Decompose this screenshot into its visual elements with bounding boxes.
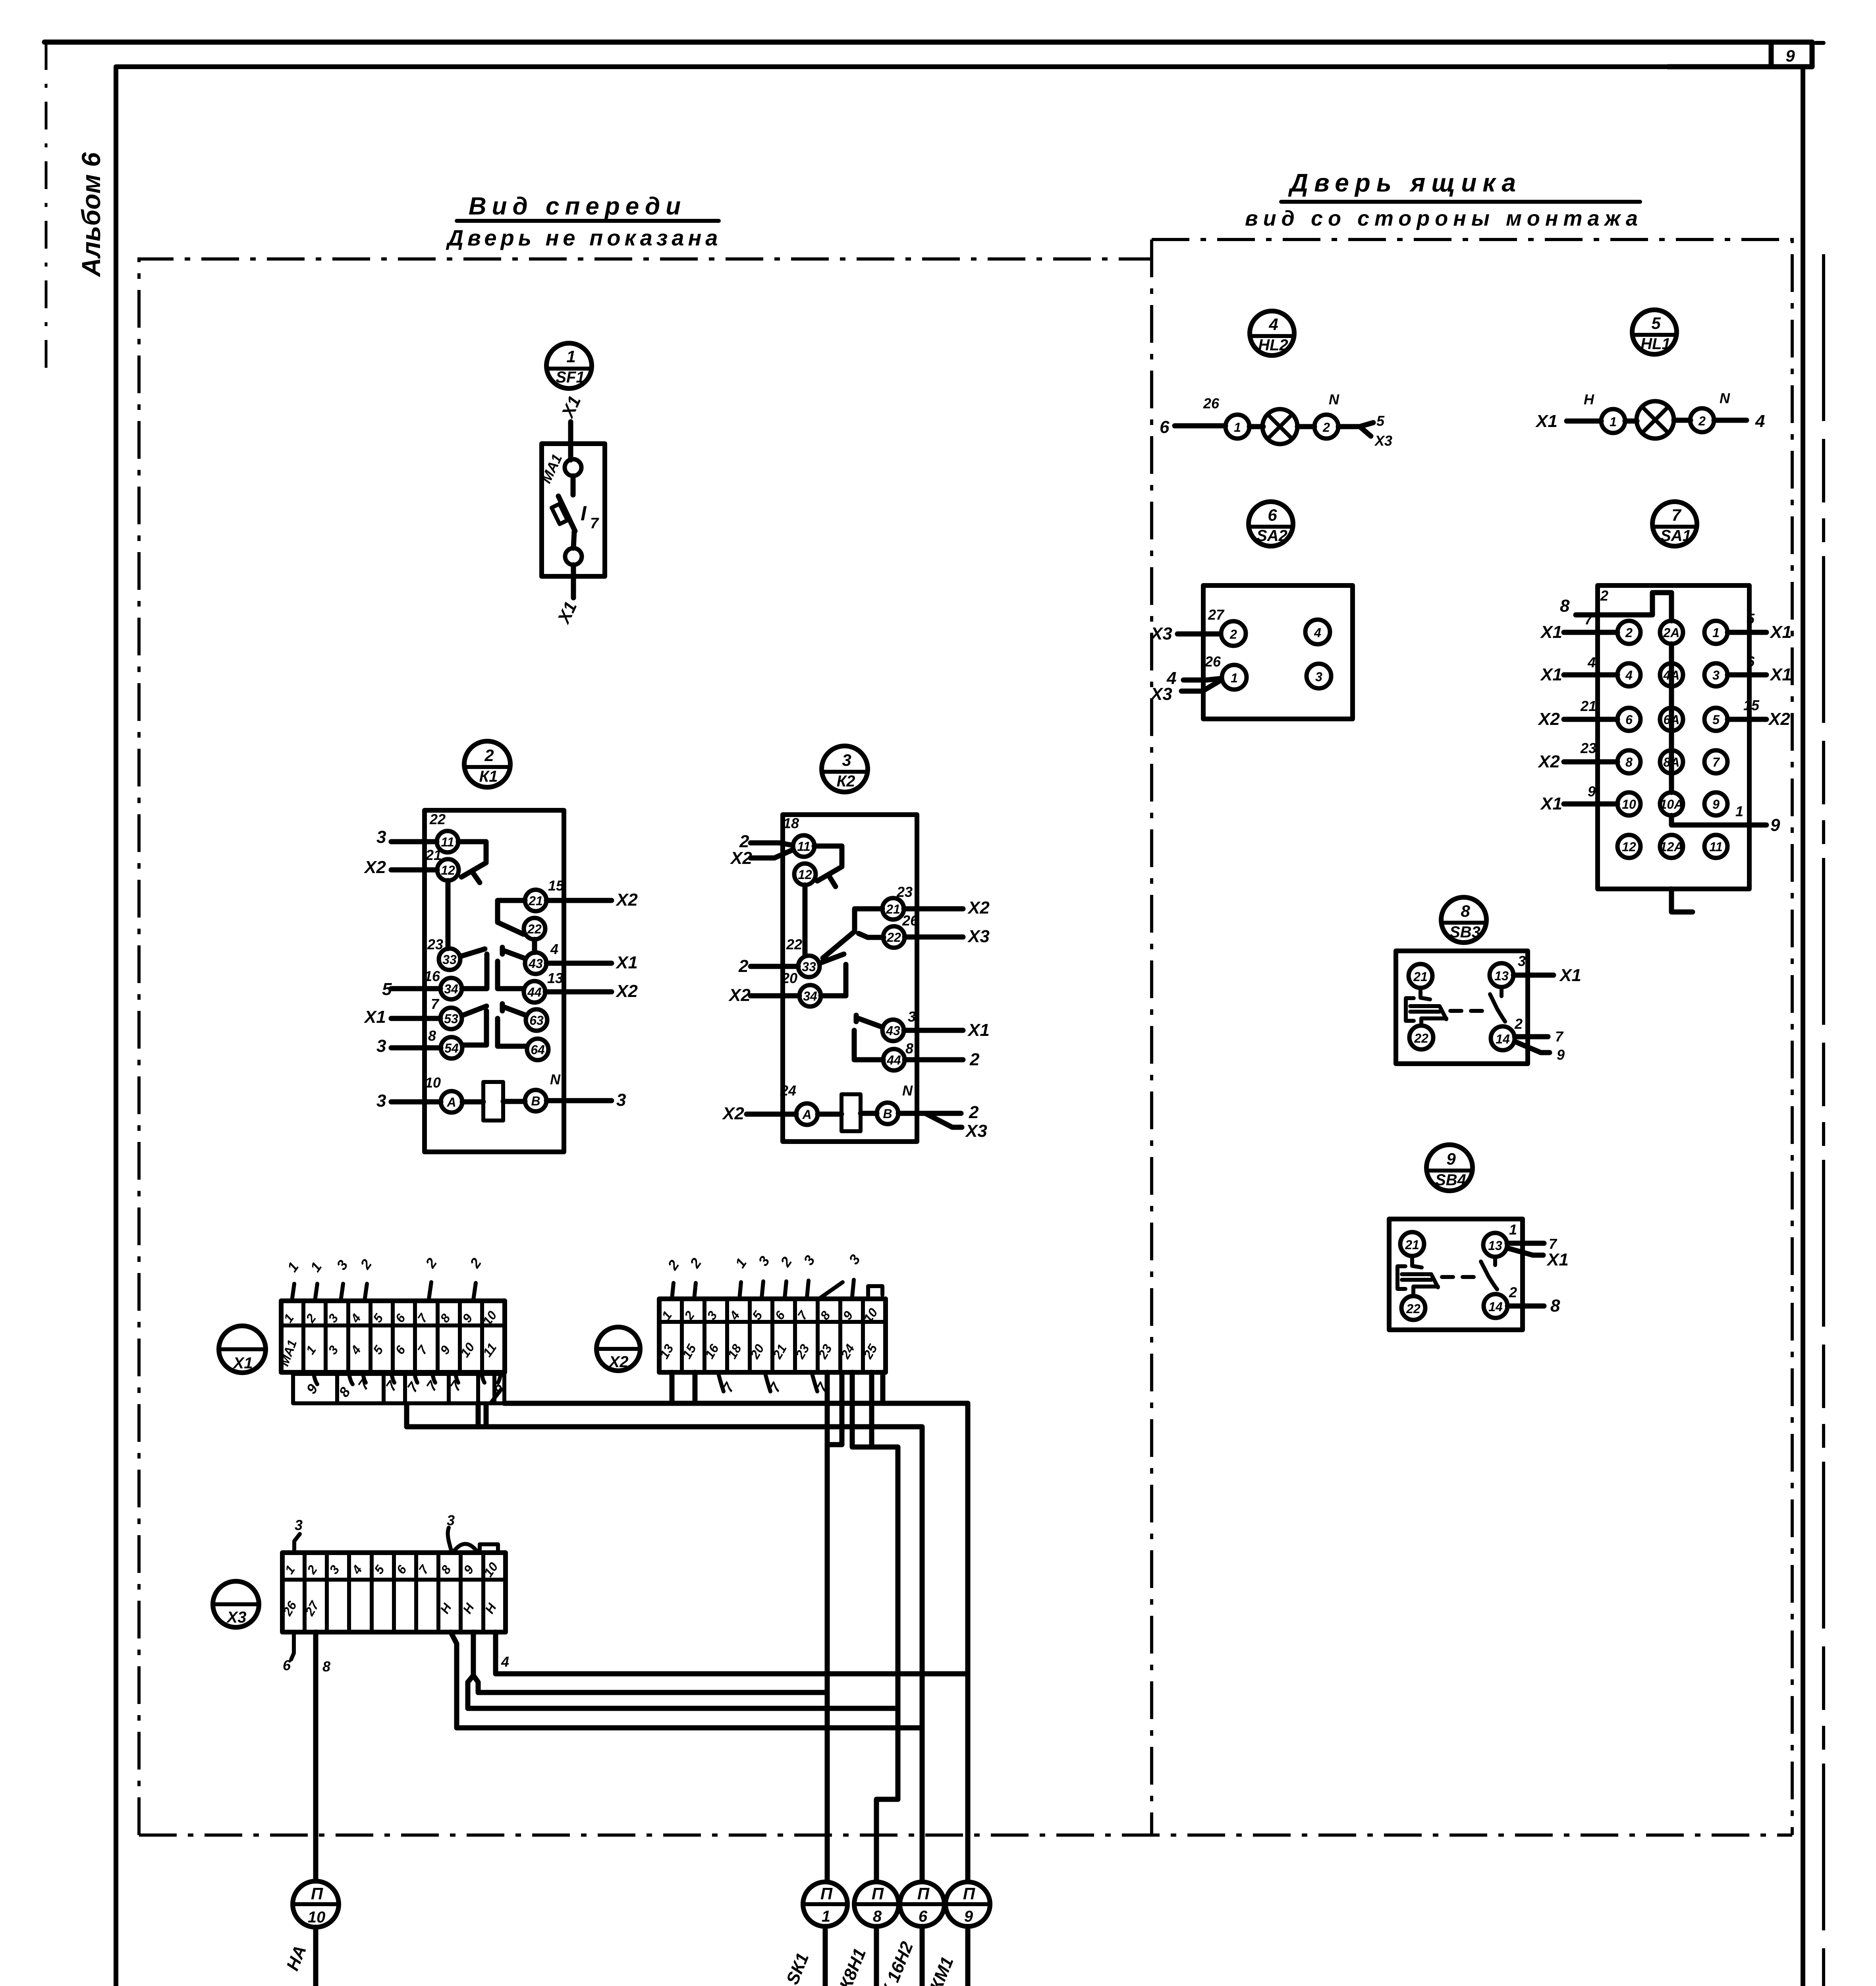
terminal K1:33 (439, 949, 460, 970)
svg-text:X3: X3 (965, 1121, 987, 1141)
wire SA1:10A to 9 (1671, 815, 1766, 825)
svg-text:3: 3 (616, 1090, 626, 1110)
svg-text:В: В (531, 1094, 540, 1108)
terminal SA1:6 (1617, 708, 1641, 731)
svg-text:3: 3 (333, 1257, 351, 1273)
svg-text:1: 1 (566, 347, 575, 366)
svg-text:53: 53 (444, 1012, 458, 1026)
svg-text:22: 22 (886, 930, 901, 945)
svg-text:X1: X1 (558, 393, 585, 421)
svg-text:2: 2 (484, 746, 494, 765)
svg-text:24: 24 (780, 1082, 796, 1099)
svg-text:22: 22 (527, 922, 542, 936)
svg-text:26: 26 (1204, 653, 1221, 670)
switch SA1 reference circle 7/SA1 (1652, 502, 1697, 546)
breaker blade (558, 496, 575, 531)
svg-text:43: 43 (528, 956, 543, 971)
svg-text:3: 3 (845, 1252, 863, 1267)
svg-text:9: 9 (1785, 46, 1795, 65)
terminal SA1:10 (1617, 792, 1641, 815)
svg-text:43: 43 (886, 1024, 900, 1038)
svg-text:В: В (883, 1107, 892, 1121)
svg-text:N: N (902, 1082, 913, 1099)
svg-text:3: 3 (1712, 668, 1720, 682)
wire K1:44 to X2 (545, 989, 612, 995)
terminal K2:33 (798, 956, 820, 977)
terminal K1:11 (437, 831, 458, 852)
wire X2:9 down to P8 (852, 1372, 898, 1881)
svg-text:8: 8 (322, 1658, 330, 1675)
svg-text:7: 7 (415, 1310, 431, 1325)
terminal K1:63 (526, 1009, 547, 1031)
wire X3:9 forks (h2,h3) (468, 1632, 898, 1708)
svg-text:2: 2 (422, 1255, 440, 1271)
wires SB4:13 to 7 and X1 (1507, 1243, 1544, 1255)
wire X1 to SA1:10 (1564, 802, 1617, 807)
svg-text:3: 3 (908, 1008, 916, 1025)
svg-text:X2: X2 (728, 985, 751, 1005)
svg-text:1: 1 (1509, 1221, 1517, 1238)
terminal SA1:4 (1617, 663, 1641, 686)
wire X2 to K2:34 (751, 993, 799, 999)
svg-text:10: 10 (1622, 797, 1636, 811)
wire X1 to SA1:4 (1564, 672, 1617, 678)
svg-text:2: 2 (686, 1255, 704, 1271)
svg-text:1: 1 (1231, 671, 1238, 685)
wire X3 to SA2:2 (1177, 632, 1221, 637)
svg-text:1: 1 (732, 1255, 750, 1271)
wire 3 to K1:11 (391, 839, 437, 844)
breaker element box (552, 504, 567, 524)
svg-text:П: П (917, 1884, 930, 1903)
svg-text:3: 3 (842, 751, 851, 769)
terminal K2:12 (794, 864, 816, 885)
svg-text:10: 10 (425, 1074, 441, 1091)
svg-text:SВ3: SВ3 (1449, 923, 1480, 941)
svg-text:X2: X2 (1537, 752, 1560, 771)
actuator symbol (1397, 1256, 1438, 1296)
svg-text:Вид спереди: Вид спереди (469, 193, 686, 220)
dash-dot divider between sections (1150, 240, 1153, 1835)
svg-text:22: 22 (429, 811, 446, 827)
contact K1 43 (498, 947, 525, 989)
wire bus B (row 3594) (407, 1405, 922, 1427)
svg-text:5: 5 (370, 1311, 386, 1325)
svg-text:1: 1 (1735, 803, 1743, 819)
terminal K1:A (441, 1091, 462, 1113)
svg-text:2: 2 (969, 1103, 979, 1122)
svg-text:X1: X1 (1540, 794, 1562, 813)
connector X3 reference circle (213, 1581, 259, 1627)
svg-text:X1: X1 (1769, 622, 1792, 642)
svg-text:I: I (581, 502, 587, 525)
moving contact (1490, 987, 1505, 1022)
svg-text:2: 2 (1625, 626, 1633, 640)
svg-text:3: 3 (376, 827, 386, 847)
svg-text:26: 26 (902, 912, 919, 929)
svg-text:7: 7 (431, 996, 440, 1012)
svg-text:1: 1 (303, 1343, 319, 1357)
corner tick top right (1816, 41, 1824, 45)
wire X2 to K1:12 (391, 867, 437, 873)
svg-text:6: 6 (392, 1343, 408, 1357)
wire K1:21 to X2 (546, 898, 612, 903)
svg-text:7: 7 (1585, 611, 1593, 628)
svg-text:2: 2 (1698, 414, 1706, 428)
svg-text:4: 4 (501, 1654, 509, 1670)
svg-text:6: 6 (1625, 713, 1633, 727)
svg-text:7: 7 (1671, 506, 1681, 524)
terminal SA1:4A (1660, 663, 1683, 686)
svg-text:КМ1: КМ1 (926, 1954, 957, 1986)
svg-text:9: 9 (1770, 815, 1780, 835)
terminal K1:34 (440, 978, 462, 999)
svg-text:8: 8 (428, 1028, 436, 1044)
terminal strip X2 (657, 1299, 886, 1372)
svg-text:X2: X2 (1768, 709, 1790, 729)
svg-text:9: 9 (1557, 1047, 1565, 1063)
svg-text:9: 9 (1588, 783, 1596, 800)
svg-text:П: П (872, 1884, 884, 1903)
pilot circle P9 (КМ1) (926, 1882, 990, 1986)
terminal K2:44 (883, 1049, 905, 1070)
pilot circle P10 (НА) (283, 1881, 339, 1986)
dashed actuator link (1450, 1009, 1491, 1013)
wire X1 to K1:53 (391, 1016, 440, 1021)
svg-text:1: 1 (307, 1259, 325, 1275)
wire SB4:14 to 8 (1507, 1304, 1544, 1309)
svg-text:23: 23 (1580, 740, 1596, 756)
switch SA2 reference circle 6/SA2 (1249, 502, 1293, 546)
svg-text:X1: X1 (1540, 665, 1562, 684)
svg-text:6: 6 (392, 1311, 408, 1325)
outer top border line (44, 40, 1812, 45)
button SB3 reference circle 8/SB3 (1441, 897, 1486, 943)
svg-text:N: N (1329, 391, 1339, 408)
svg-text:HL2: HL2 (1258, 336, 1288, 354)
wire 3 to K1:A and coil (391, 1101, 612, 1102)
svg-text:20: 20 (781, 970, 797, 986)
svg-text:16: 16 (424, 968, 440, 984)
svg-text:63: 63 (529, 1013, 544, 1028)
svg-text:3: 3 (376, 1036, 386, 1056)
wire X3:8 to bus (h4) (451, 1632, 922, 1728)
svg-text:9: 9 (437, 1343, 453, 1357)
wire 8 into SA1:2A (1576, 593, 1671, 621)
sheet number box (1668, 42, 1812, 67)
svg-text:2: 2 (1600, 587, 1608, 604)
wire K2:43 to X1 (904, 1028, 963, 1033)
svg-text:N: N (1720, 390, 1730, 406)
terminal SA1:8A (1660, 750, 1683, 773)
terminal SA1:7 (1704, 750, 1727, 773)
svg-text:SA2: SA2 (1256, 527, 1287, 545)
svg-text:7: 7 (1549, 1236, 1558, 1252)
LEFT-SECTION (363, 343, 990, 1152)
STRIPS-AND-WIRES (213, 1252, 990, 1986)
lamp symbol (1262, 409, 1297, 444)
wire X2:8 down to P1 (827, 1372, 842, 1881)
svg-text:8: 8 (438, 1563, 454, 1576)
svg-text:X2: X2 (615, 981, 638, 1001)
X3 top stubs (294, 1512, 498, 1553)
svg-text:SA1: SA1 (1660, 527, 1691, 545)
svg-text:33: 33 (802, 960, 816, 974)
moving contact (1481, 1257, 1497, 1289)
svg-text:X2: X2 (722, 1104, 744, 1123)
lamp HL1 reference circle 5/HL1 (1632, 310, 1677, 354)
svg-text:11: 11 (441, 835, 454, 849)
svg-text:X1: X1 (1546, 1250, 1569, 1269)
connector X2 reference circle (596, 1327, 640, 1371)
svg-text:2: 2 (357, 1256, 375, 1273)
svg-text:6: 6 (1160, 417, 1170, 437)
dash-dot enclosure right section (1152, 240, 1792, 1835)
lamp HL2 reference circle 4/HL2 (1250, 311, 1294, 355)
terminal strip X3 (280, 1553, 506, 1632)
svg-text:8: 8 (873, 1908, 882, 1925)
wire SF1 to X1 below (571, 565, 576, 598)
svg-text:X1: X1 (1535, 411, 1558, 431)
svg-text:9: 9 (1712, 797, 1720, 811)
terminal SA1:2A (1660, 621, 1683, 644)
svg-text:7: 7 (416, 1562, 432, 1576)
svg-text:1: 1 (1610, 415, 1617, 429)
lamp HL1 circuit (1535, 390, 1765, 439)
svg-text:3: 3 (755, 1253, 773, 1269)
svg-text:3: 3 (326, 1563, 342, 1576)
svg-text:9: 9 (964, 1908, 973, 1925)
svg-text:12: 12 (1622, 840, 1636, 854)
wire X2:10 to bus A (880, 1372, 886, 1401)
svg-text:X3: X3 (1374, 433, 1392, 449)
svg-text:12: 12 (441, 863, 455, 877)
svg-text:А: А (446, 1095, 456, 1109)
svg-text:2: 2 (1509, 1284, 1517, 1300)
svg-text:Дверь ящика: Дверь ящика (1288, 168, 1522, 197)
svg-text:9: 9 (461, 1563, 477, 1576)
svg-text:X2: X2 (1537, 709, 1560, 729)
svg-text:5: 5 (371, 1562, 387, 1576)
wire X3:10 to P9 (h1) (496, 1632, 968, 1674)
svg-text:2: 2 (738, 956, 749, 976)
svg-text:18: 18 (783, 815, 799, 831)
svg-text:6: 6 (394, 1563, 409, 1576)
svg-text:22: 22 (786, 936, 802, 952)
svg-text:21: 21 (1580, 698, 1596, 714)
terminal K1:22 (524, 918, 545, 939)
svg-text:22: 22 (1414, 1031, 1428, 1045)
terminal SA1:8 (1617, 750, 1641, 773)
svg-text:К1: К1 (479, 768, 498, 785)
lamp HL2 circuit (1160, 391, 1392, 449)
svg-text:34: 34 (803, 989, 817, 1003)
actuator symbol (1406, 988, 1446, 1026)
wire SA1:1 to X1 (1727, 630, 1766, 635)
svg-text:А: А (802, 1107, 811, 1122)
svg-text:23: 23 (427, 936, 443, 952)
svg-text:5: 5 (382, 979, 392, 999)
svg-text:2: 2 (1322, 420, 1330, 435)
terminal SA1:1 (1704, 621, 1727, 644)
svg-text:21: 21 (1405, 1238, 1419, 1252)
svg-text:2: 2 (1229, 627, 1237, 641)
connector X1 reference circle (219, 1326, 266, 1373)
svg-text:X2: X2 (730, 848, 752, 868)
svg-text:2: 2 (664, 1257, 682, 1273)
svg-text:К2: К2 (837, 773, 855, 790)
terminal K2:21 (882, 898, 904, 920)
pilot circle P8 (КСК8Н1) (827, 1882, 899, 1986)
svg-text:5: 5 (1651, 314, 1661, 332)
svg-text:13: 13 (1494, 969, 1509, 983)
wire K2:44 to 2 (905, 1057, 963, 1063)
wire 5 to K1:34 (391, 986, 440, 991)
svg-text:6: 6 (283, 1657, 291, 1673)
terminal SA1:12 (1617, 835, 1641, 858)
svg-text:21: 21 (425, 847, 442, 863)
svg-text:64: 64 (531, 1043, 545, 1057)
svg-text:3: 3 (376, 1091, 386, 1111)
relay K1 reference circle 2/K1 (464, 741, 510, 787)
svg-text:X2: X2 (615, 890, 638, 910)
X1 top stubs and wire numbers (284, 1255, 484, 1301)
svg-text:15: 15 (548, 877, 564, 894)
svg-text:X1: X1 (554, 599, 581, 627)
svg-text:X3: X3 (1150, 624, 1172, 643)
contact K2 43 (854, 1015, 883, 1060)
svg-text:3: 3 (295, 1517, 303, 1533)
svg-text:23: 23 (896, 884, 913, 900)
terminal SA1:3 (1704, 663, 1727, 686)
svg-text:8: 8 (1550, 1296, 1560, 1316)
svg-text:13: 13 (547, 970, 563, 986)
terminal K2:B (877, 1103, 898, 1124)
terminal K1:64 (527, 1039, 548, 1060)
svg-text:44: 44 (527, 985, 542, 999)
breaker SF1 reference circle 1/SF1 (546, 343, 592, 388)
svg-text:КСК8Н1: КСК8Н1 (827, 1945, 870, 1986)
svg-text:3: 3 (447, 1512, 455, 1528)
RIGHT-SECTION (1150, 310, 1792, 1330)
wire 2 to K2:33 (751, 964, 798, 969)
svg-text:4: 4 (1755, 411, 1765, 431)
outer left dash-dot trim line (45, 42, 48, 378)
svg-text:8: 8 (905, 1040, 913, 1057)
terminal K1:53 (440, 1008, 462, 1029)
svg-text:HL1: HL1 (1641, 335, 1671, 353)
svg-text:П: П (311, 1884, 323, 1903)
svg-text:6: 6 (1747, 653, 1755, 670)
svg-text:2: 2 (969, 1050, 980, 1069)
wire bus A down to P9 (965, 1403, 971, 1881)
terminal K1:54 (441, 1037, 462, 1059)
terminal SA1:12A (1660, 835, 1683, 858)
terminal SA1:11 (1704, 835, 1727, 858)
svg-text:12: 12 (798, 867, 812, 882)
terminal K1:12 (437, 859, 459, 881)
wire X1 to SA1:2 (1564, 630, 1617, 635)
svg-text:SВ4: SВ4 (1435, 1171, 1466, 1189)
svg-text:X2: X2 (967, 898, 990, 918)
X1 jumper sub-row (293, 1372, 506, 1403)
wire 12 to 33 (446, 881, 451, 949)
terminal strip X1 (277, 1301, 505, 1372)
svg-text:22: 22 (1406, 1302, 1421, 1316)
contact stub (571, 476, 576, 495)
contact K2 33 (820, 954, 846, 996)
terminal K2:34 (799, 985, 821, 1007)
wire bus A (row 3533) (504, 1401, 968, 1406)
svg-text:54: 54 (444, 1041, 459, 1055)
wire X3:2 down to P10 (NA) (313, 1632, 318, 1881)
svg-text:4: 4 (1268, 315, 1278, 334)
svg-text:3: 3 (325, 1343, 341, 1357)
svg-text:7: 7 (1712, 755, 1720, 769)
svg-text:X1: X1 (233, 1354, 253, 1372)
svg-text:SF1: SF1 (556, 369, 585, 386)
svg-text:9: 9 (459, 1311, 475, 1325)
svg-text:вид со стороны монтажа: вид со стороны монтажа (1245, 207, 1643, 230)
svg-text:4: 4 (1625, 668, 1633, 682)
wire SA1:3 to X1 (1727, 672, 1766, 678)
svg-text:НА: НА (283, 1943, 310, 1973)
terminal K1:B (525, 1090, 546, 1111)
X2 top stubs and wire numbers (664, 1252, 882, 1299)
svg-text:2: 2 (777, 1254, 795, 1270)
contact K1 33 (460, 949, 487, 989)
svg-text:26: 26 (1203, 395, 1220, 411)
svg-text:27: 27 (1208, 607, 1225, 623)
svg-text:1: 1 (284, 1259, 302, 1275)
svg-text:5: 5 (1712, 713, 1720, 727)
lower terminal (565, 548, 582, 565)
outer right dashed trim line (1822, 254, 1825, 1986)
X2 bottom stubs to buses (672, 1372, 832, 1401)
svg-text:11: 11 (797, 839, 810, 854)
svg-text:14: 14 (1496, 1032, 1510, 1046)
wire K1:43 to X1 (546, 961, 612, 966)
svg-text:11: 11 (1709, 840, 1722, 854)
svg-text:3: 3 (800, 1252, 818, 1268)
svg-text:33: 33 (442, 952, 457, 967)
svg-text:7: 7 (1555, 1028, 1564, 1045)
svg-text:N: N (550, 1071, 561, 1088)
wire bus B down to P6 (920, 1428, 925, 1881)
svg-text:4: 4 (349, 1563, 365, 1577)
svg-text:3: 3 (325, 1311, 341, 1325)
svg-text:13: 13 (1488, 1238, 1502, 1253)
svg-text:14: 14 (1488, 1300, 1503, 1314)
wires 2 and X2 to K2:11 (751, 843, 793, 858)
svg-text:Н: Н (1584, 391, 1594, 408)
wire K2:21 to X2 (904, 906, 963, 912)
wire K2:22 to X3 (905, 935, 963, 940)
svg-text:X1: X1 (615, 953, 638, 972)
bracket K1 21-22 (498, 900, 535, 952)
button SB4 reference circle 9/SB4 (1426, 1145, 1473, 1191)
svg-text:9: 9 (1446, 1149, 1456, 1168)
svg-text:4: 4 (550, 941, 558, 957)
svg-text:6: 6 (1268, 506, 1277, 524)
svg-text:7: 7 (415, 1342, 431, 1357)
terminal SA1:5 (1704, 708, 1727, 731)
svg-text:1: 1 (1712, 626, 1720, 640)
button SB3 body (1396, 951, 1581, 1064)
svg-text:8: 8 (1625, 755, 1633, 769)
svg-text:X1: X1 (1540, 622, 1562, 642)
svg-text:8: 8 (1560, 596, 1570, 616)
